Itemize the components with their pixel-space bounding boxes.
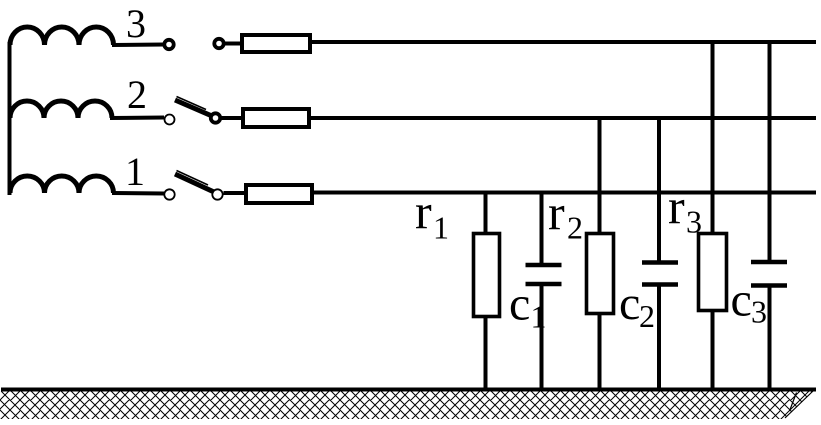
wire (c2 to ground) xyxy=(657,285,661,391)
wire (phase 2 to resistor r2) xyxy=(598,117,602,234)
svg-text:1: 1 xyxy=(531,299,547,335)
fuse F3 xyxy=(242,35,310,52)
wire (coil L1 to switch) xyxy=(112,191,164,196)
wire (phase 2 to capacitor c2) xyxy=(657,117,661,263)
switch S2 blade xyxy=(175,100,212,116)
capacitor c1 bottom plate xyxy=(526,282,562,287)
switch S3 right terminal xyxy=(214,39,223,48)
wire (r2 to ground) xyxy=(598,313,602,390)
wire (coil L3 to switch) xyxy=(112,43,164,48)
capacitor c3 bottom plate xyxy=(751,283,787,288)
resistor r2 xyxy=(587,234,614,314)
node N (left neutral bus) xyxy=(8,42,12,195)
capacitor c3 top plate xyxy=(751,260,787,265)
switch S1 blade xyxy=(175,174,214,192)
wire (phase 3 to capacitor c3) xyxy=(768,41,772,262)
ground (earth plane top line) xyxy=(1,388,816,392)
wire (coil L2 to switch) xyxy=(110,116,164,121)
resistor r3 xyxy=(699,234,727,311)
wire (S1 to fuse F1) xyxy=(224,191,249,195)
switch S2 left terminal xyxy=(165,115,175,125)
wire phase 2 line xyxy=(309,116,816,120)
capacitor c2 bottom plate xyxy=(642,282,678,287)
switch S3 left terminal xyxy=(164,40,173,49)
switch S2 right terminal xyxy=(211,113,220,122)
svg-text:r: r xyxy=(415,184,432,240)
svg-text:r: r xyxy=(668,179,685,235)
svg-text:2: 2 xyxy=(639,298,655,334)
capacitor c2 top plate xyxy=(642,260,678,265)
svg-text:3: 3 xyxy=(751,294,767,330)
svg-text:r: r xyxy=(548,185,565,241)
inductor L3 (phase 3 winding) xyxy=(10,27,114,45)
wire (phase 1 to capacitor c1) xyxy=(540,192,544,265)
switch S1 right terminal xyxy=(212,189,222,199)
wire (r1 to ground) xyxy=(484,316,488,390)
switch S1 left terminal xyxy=(164,189,174,199)
inductor L1 (phase 1 winding) xyxy=(10,176,114,193)
ground (earth hatched fill) xyxy=(0,392,813,420)
capacitor c1 top plate xyxy=(526,263,562,268)
wire (S2 to fuse F2) xyxy=(222,116,245,120)
wire (phase 3 to resistor r3) xyxy=(711,41,715,234)
svg-text:c: c xyxy=(509,278,530,331)
fuse F1 xyxy=(246,185,312,203)
fuse F2 xyxy=(243,109,309,127)
wire phase 1 line xyxy=(312,191,816,195)
inductor L2 (phase 2 winding) xyxy=(10,101,112,118)
wire (r3 to ground) xyxy=(711,310,715,390)
svg-text:c: c xyxy=(731,274,752,327)
svg-text:c: c xyxy=(619,277,640,330)
wire phase 3 line xyxy=(310,40,816,44)
svg-text:1: 1 xyxy=(433,210,449,246)
wire (S3 to fuse F3) xyxy=(225,42,243,46)
ground (earth right edge strokes) xyxy=(785,391,813,418)
svg-text:3: 3 xyxy=(126,1,146,46)
wire (c3 to ground) xyxy=(768,286,772,391)
wire (c1 to ground) xyxy=(540,284,544,390)
svg-text:2: 2 xyxy=(127,72,147,117)
resistor r1 xyxy=(474,234,500,317)
wire (phase 1 to resistor r1) xyxy=(484,192,488,234)
svg-text:1: 1 xyxy=(125,149,145,194)
svg-text:2: 2 xyxy=(567,210,583,246)
